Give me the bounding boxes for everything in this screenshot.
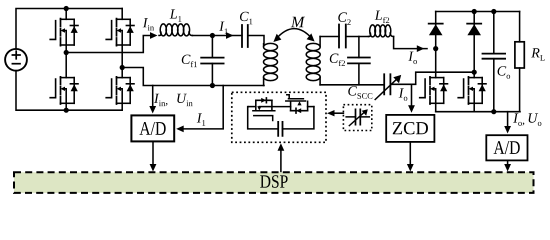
wire rectifier top rail bbox=[436, 11, 520, 13]
transistor Q2 (upper right) with body diode bbox=[106, 9, 134, 78]
capacitor CSCC (switch-controlled) bbox=[375, 74, 401, 99]
label M bbox=[291, 17, 305, 27]
label RL bbox=[531, 48, 544, 60]
primary coil bbox=[264, 43, 278, 85]
arrow ZCD to DSP bbox=[407, 142, 414, 172]
current arrow I_o (rectifier input) bbox=[417, 45, 425, 52]
capacitor C (SCC internal) bbox=[278, 122, 282, 136]
label Cf1 bbox=[182, 55, 197, 67]
coupling arc M bbox=[273, 29, 314, 42]
wire Iin Uin tap to A/D bbox=[152, 86, 154, 109]
label C2 bbox=[338, 12, 350, 24]
node junction L1/Cf1/C1 bbox=[210, 33, 215, 38]
inductor Lf2 bbox=[369, 25, 428, 49]
wire node to C1 bbox=[212, 35, 242, 37]
label I_o (ZCD tap) bbox=[399, 88, 408, 100]
label CSCC bbox=[348, 86, 372, 99]
diode D2 bbox=[467, 12, 481, 78]
arrowhead into left A/D top bbox=[149, 106, 156, 114]
wire I1 tap to A/D bbox=[184, 86, 223, 129]
arrow DSP to SCC box bbox=[278, 143, 285, 171]
wire C1 to primary coil bbox=[248, 36, 264, 44]
label I_o (rectifier input) bbox=[408, 52, 417, 64]
DC source E bbox=[5, 49, 27, 71]
wire output bottom rail bbox=[436, 111, 520, 113]
arrow right A/D to DSP bbox=[504, 160, 511, 171]
wire CSCC to rectifier leg bbox=[390, 72, 474, 84]
block DSP bbox=[14, 172, 534, 193]
wire top rail from source to bridge bbox=[16, 9, 122, 49]
node junction D1 leg / input wire bbox=[433, 46, 438, 51]
wire node A to L1 (with bend up) bbox=[66, 36, 152, 53]
node junction top rail / Co bbox=[491, 9, 496, 14]
label Lf2 bbox=[375, 11, 390, 23]
label I_in bbox=[143, 18, 154, 30]
block A/D (input) bbox=[131, 115, 174, 141]
transistor Q1 (upper left) with body diode bbox=[50, 9, 78, 53]
variable capacitor box (dotted) bbox=[343, 105, 371, 131]
variable capacitor symbol bbox=[346, 109, 369, 125]
transistor Q4 (lower right) with body diode bbox=[106, 77, 134, 110]
wire C2 to Lf2 bbox=[346, 36, 369, 38]
arrow left A/D to DSP bbox=[150, 141, 157, 171]
arrowhead into left A/D right side bbox=[176, 126, 184, 133]
node junction Co / output rail bbox=[491, 109, 496, 114]
transistor M2 (SCC right) bbox=[272, 95, 314, 113]
transistor Q6 (sync rectifier right) with body diode bbox=[458, 77, 486, 112]
label I_o U_o bbox=[513, 113, 541, 125]
label C1 bbox=[240, 12, 252, 24]
wire I_o tap to ZCD bbox=[411, 84, 413, 105]
node junction return wire / right rectifier leg bbox=[472, 70, 477, 75]
wire secondary bottom rail to CSCC bbox=[320, 84, 384, 86]
wire SCC loop bbox=[248, 107, 314, 129]
current arrow I_in bbox=[150, 32, 158, 39]
SCC detail box (dotted) bbox=[232, 92, 326, 142]
arrow variable cap to SCC box bbox=[327, 110, 343, 116]
label I1 (A/D input) bbox=[197, 113, 206, 125]
arrowhead into ZCD bbox=[408, 105, 415, 113]
inductor L1 bbox=[159, 24, 212, 36]
wire source bottom to DC- rail bbox=[16, 71, 122, 111]
capacitor Cf2 bbox=[348, 37, 370, 85]
wire secondary coil to C2 bbox=[320, 36, 339, 38]
node junction top rail / left leg bbox=[64, 6, 69, 11]
capacitor Co bbox=[483, 12, 506, 112]
node junction Cf1 bottom rail bbox=[210, 83, 215, 88]
label Iin Uin bbox=[154, 94, 193, 106]
transistor Q3 (lower left) with body diode bbox=[50, 53, 78, 111]
capacitor C2 bbox=[339, 25, 346, 48]
block A/D (output) bbox=[486, 135, 527, 160]
capacitor Cf1 bbox=[201, 36, 223, 86]
diode D1 bbox=[429, 12, 443, 49]
label L1 bbox=[170, 9, 182, 21]
capacitor C1 bbox=[242, 25, 248, 47]
current arrow I_1 bbox=[226, 32, 234, 39]
wire output sense to A/D bbox=[507, 112, 509, 129]
wire node B to primary bottom rail bbox=[122, 68, 264, 86]
node junction top rail / D2 bbox=[472, 9, 477, 14]
node junction DC- rail / left leg bbox=[64, 108, 69, 113]
block ZCD bbox=[386, 115, 434, 142]
node B junction bbox=[120, 65, 125, 70]
transistor Q5 (sync rectifier left) with body diode bbox=[420, 49, 448, 112]
label I_1 bbox=[219, 22, 228, 34]
arrowhead into right A/D bbox=[504, 126, 511, 134]
transistor M1 (SCC left) bbox=[248, 98, 274, 121]
node A junction bbox=[64, 50, 69, 55]
resistor RL bbox=[515, 12, 524, 112]
label Co bbox=[498, 66, 511, 79]
label Cf2 bbox=[330, 54, 345, 66]
secondary coil bbox=[306, 37, 320, 85]
